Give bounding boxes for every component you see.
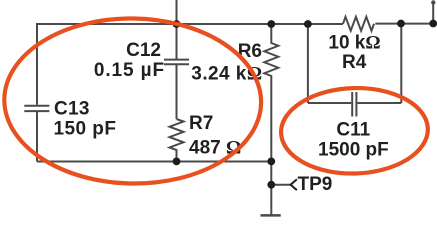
resistor R4: [343, 17, 374, 31]
test point TP9 stub: [271, 184, 290, 186]
test point chevron: [291, 179, 297, 190]
wire: C11 right lead: [357, 102, 401, 104]
wire: bottom bus y=161.5: [37, 161, 271, 163]
junction node C12 top: [173, 20, 181, 28]
annotation ellipse right: [280, 86, 429, 176]
wire: top bus right of R4: [375, 23, 433, 25]
junction node TP9: [267, 181, 275, 189]
svg-text:C11: C11: [336, 120, 370, 141]
svg-text:C13: C13: [54, 99, 90, 120]
junction node R6 top: [267, 20, 275, 28]
wire: left branch vertical lower: [36, 112, 38, 162]
annotation ellipse left: [3, 17, 262, 186]
junction node box left top: [304, 20, 312, 28]
wire: box right side: [400, 24, 402, 104]
capacitor C13: [24, 106, 49, 111]
wire: vertical feed from top edge through node into C12: [176, 0, 178, 59]
wire: R6 node down to ground: [270, 162, 272, 216]
junction node top right corner: [429, 20, 437, 28]
wire: right edge vertical: [432, 3, 434, 24]
wire: top horizontal bus y=24: [37, 23, 343, 25]
stub terminal top right: [431, 0, 435, 4]
svg-text:R7: R7: [189, 113, 213, 134]
svg-text:10 kΩ: 10 kΩ: [328, 32, 380, 53]
capacitor C12: [164, 60, 189, 65]
svg-text:0.15 µF: 0.15 µF: [94, 60, 165, 81]
wire: box left side: [307, 24, 309, 103]
svg-text:TP9: TP9: [298, 174, 333, 195]
wire: C12 to R7: [176, 65, 178, 119]
svg-text:150 pF: 150 pF: [54, 119, 117, 140]
junction node R6 bottom: [267, 158, 275, 166]
resistor R6: [264, 24, 278, 162]
resistor R7: [170, 119, 184, 162]
wire: C11 left lead: [308, 102, 351, 104]
junction node box right top: [397, 20, 405, 28]
svg-text:1500 pF: 1500 pF: [318, 140, 389, 161]
wire: left branch vertical upper: [36, 23, 38, 105]
svg-text:C12: C12: [126, 40, 161, 61]
junction node R7 bottom: [173, 158, 181, 166]
capacitor C11: [352, 92, 356, 117]
ground bar: [261, 214, 281, 217]
svg-text:R4: R4: [342, 52, 367, 73]
